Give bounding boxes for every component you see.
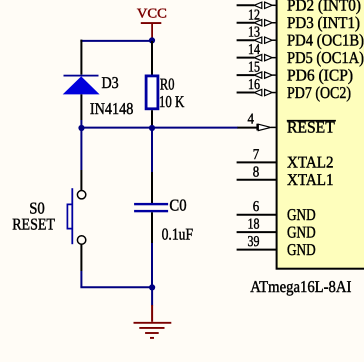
svg-text:C0: C0: [169, 196, 186, 215]
junction node bottom: [149, 284, 155, 290]
pin 14 wire (PD5): [237, 57, 255, 59]
svg-text:4: 4: [248, 111, 255, 127]
ground symbol bars: [134, 323, 172, 338]
resistor R0 body: [146, 76, 158, 109]
pin 12 wire (PD3): [237, 22, 255, 24]
wire: middle horizontal to RESET pin: [80, 127, 237, 129]
svg-text:RESET: RESET: [12, 215, 55, 234]
wire: diode bottom pin: [80, 94, 82, 120]
svg-text:PD6 (ICP): PD6 (ICP): [287, 65, 353, 84]
svg-text:39: 39: [248, 234, 260, 250]
switch S0 bracket: [67, 204, 71, 228]
wire: resistor bottom pin: [151, 110, 153, 127]
switch S0 top contact: [77, 191, 85, 199]
wire: down to switch: [80, 128, 82, 170]
pin 15 bidir arrow: [254, 72, 276, 78]
VCC power symbol: [137, 6, 167, 39]
svg-text:PD7 (OC2): PD7 (OC2): [287, 83, 351, 102]
svg-text:GND: GND: [287, 222, 316, 241]
svg-text:GND: GND: [287, 205, 316, 224]
wire: capacitor top pin: [151, 128, 153, 172]
pin 8 wire (XTAL1): [237, 179, 277, 181]
pin 15 wire (PD6): [237, 74, 255, 76]
pin 13 wire (PD4): [237, 39, 255, 41]
svg-text:GND: GND: [287, 240, 316, 259]
svg-text:PD5 (OC1A): PD5 (OC1A): [287, 48, 364, 67]
svg-text:PD4 (OC1B): PD4 (OC1B): [287, 30, 364, 49]
diode D3 triangle: [63, 76, 100, 94]
pin 11 wire (PD2): [237, 4, 255, 6]
svg-text:ATmega16L-8AI: ATmega16L-8AI: [250, 277, 351, 296]
svg-text:XTAL2: XTAL2: [287, 153, 334, 172]
diode D3 cathode bar: [64, 75, 99, 77]
svg-text:R0: R0: [160, 75, 175, 94]
svg-text:7: 7: [253, 147, 260, 163]
switch S0 bottom contact: [77, 236, 85, 244]
pin 6 wire (GND): [237, 214, 277, 216]
wire: capacitor bottom pin: [151, 212, 153, 243]
svg-text:18: 18: [248, 217, 260, 233]
pin 11 bidir arrow: [254, 2, 276, 8]
wire: bottom horizontal: [80, 286, 152, 288]
pin 16 wire (PD7): [237, 92, 255, 94]
junction node right: [149, 125, 155, 131]
pin 39 wire (GND): [237, 249, 277, 251]
switch S0 lever bar: [71, 188, 73, 244]
wire: VCC horizontal to diode branch: [80, 40, 152, 42]
wire: resistor top pin: [151, 41, 153, 75]
svg-text:VCC: VCC: [137, 6, 167, 21]
wire: left vertical, diode top pin: [80, 40, 82, 75]
ground symbol stem: [151, 288, 153, 306]
pin 13 bidir arrow: [254, 37, 276, 43]
pin 16 bidir arrow: [254, 89, 276, 95]
svg-text:0.1uF: 0.1uF: [162, 224, 194, 243]
wire: switch bottom pin: [80, 244, 82, 271]
svg-text:6: 6: [253, 199, 260, 215]
svg-text:IN4148: IN4148: [90, 99, 133, 118]
svg-text:XTAL1: XTAL1: [287, 170, 334, 189]
pin 7 wire (XTAL2): [237, 161, 277, 163]
pin 14 bidir arrow: [254, 54, 276, 60]
svg-text:D3: D3: [102, 73, 119, 92]
capacitor C0 plates: [134, 203, 168, 205]
IC U1 ATmega16L body: [277, 0, 364, 269]
pin 4 input arrow: [256, 124, 275, 131]
pin 12 bidir arrow: [254, 20, 276, 26]
svg-text:8: 8: [253, 164, 260, 180]
junction node left: [78, 125, 84, 131]
junction node at VCC: [149, 37, 155, 43]
pin 18 wire (GND): [237, 231, 277, 233]
svg-text:10 K: 10 K: [159, 92, 185, 111]
pin 4 black pin line (RESET): [237, 127, 257, 129]
svg-text:PD3 (INT1): PD3 (INT1): [287, 13, 360, 32]
